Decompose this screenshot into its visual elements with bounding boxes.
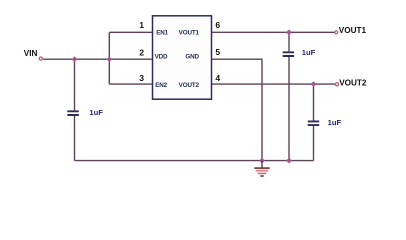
svg-text:VOUT2: VOUT2 xyxy=(179,82,200,89)
terminal VIN xyxy=(39,57,42,60)
junction at left bus / pin2 xyxy=(106,56,112,62)
wire left pin bus vertical xyxy=(108,32,110,84)
wire cap C1 branch vertical xyxy=(74,59,76,160)
ground symbol xyxy=(254,161,269,176)
IC U1 body (dual LDO regulator) xyxy=(153,16,212,99)
wire VIN to pin2 xyxy=(43,58,153,60)
svg-text:1uF: 1uF xyxy=(89,108,103,117)
svg-text:1uF: 1uF xyxy=(302,48,316,57)
capacitor C2 plates xyxy=(283,52,295,56)
capacitor C3 plates xyxy=(308,121,320,125)
terminal VOUT1 xyxy=(335,31,338,34)
svg-text:3: 3 xyxy=(139,73,144,83)
svg-text:EN2: EN2 xyxy=(155,82,167,89)
svg-text:VDD: VDD xyxy=(155,53,168,60)
terminal VOUT2 xyxy=(335,83,338,86)
svg-text:VOUT1: VOUT1 xyxy=(339,26,367,35)
junction at ground bus / GND stem xyxy=(259,158,265,164)
wire pin6 to VOUT1 xyxy=(212,31,335,33)
svg-text:VOUT1: VOUT1 xyxy=(179,29,200,36)
capacitor C1 plates xyxy=(67,111,79,115)
svg-text:2: 2 xyxy=(139,47,144,57)
svg-text:1: 1 xyxy=(139,20,144,30)
svg-text:EN1: EN1 xyxy=(156,29,168,36)
wire pin5 GND down xyxy=(212,59,263,160)
wire cap C3 branch vertical xyxy=(313,84,315,161)
wire pin3 stub xyxy=(109,83,152,85)
junction at ground bus / C2 branch xyxy=(286,158,292,164)
wire bottom ground bus xyxy=(75,160,314,162)
junction at VOUT2/C3 branch xyxy=(311,81,317,87)
wire pin4 to VOUT2 xyxy=(212,83,336,85)
junction at VOUT1/C2 branch xyxy=(286,29,292,35)
svg-text:VIN: VIN xyxy=(24,49,38,58)
svg-text:4: 4 xyxy=(215,73,220,83)
wire pin1 stub xyxy=(109,31,152,33)
svg-text:VOUT2: VOUT2 xyxy=(339,78,367,87)
junction at VIN/C1 branch xyxy=(72,56,78,62)
svg-text:5: 5 xyxy=(215,47,220,57)
wire cap C2 branch vertical xyxy=(288,32,290,160)
svg-text:6: 6 xyxy=(215,20,220,30)
svg-text:GND: GND xyxy=(185,53,199,60)
svg-text:1uF: 1uF xyxy=(328,118,342,127)
